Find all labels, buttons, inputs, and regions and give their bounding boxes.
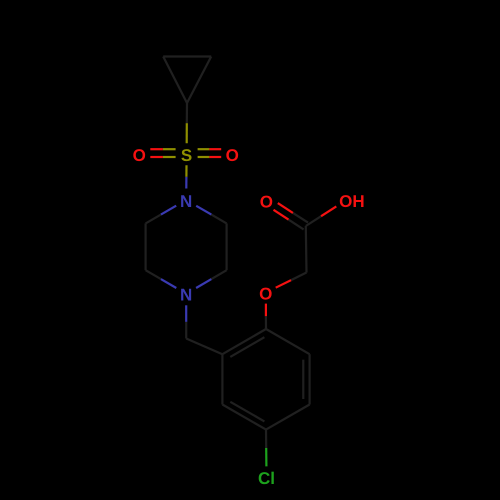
wire: benzene bond C4-C5 [266,405,310,430]
svg-text:N: N [180,286,192,305]
wire: piperazine N1-C bond [161,206,176,215]
wire: C-Cl bond [265,430,267,448]
wire: N-CH2 benzyl bond [185,305,187,322]
wire: O-phenyl bond [265,304,267,317]
svg-text:O: O [260,192,273,211]
svg-text:O: O [133,146,146,165]
svg-text:Cl: Cl [258,469,275,488]
wire: O-CH2 bond [276,280,291,288]
wire: benzene double bond inner line C1-C2 [230,337,264,357]
svg-text:S: S [181,146,192,165]
wire: piperazine N2-C bond [161,279,176,288]
wire: C=O carboxyl double bond [293,213,308,223]
wire: benzene bond C1-C2 [222,329,266,354]
wire: S-N bond [185,165,187,177]
wire: CH2-phenyl bond [186,339,222,355]
wire: piperazine C-C bond [145,223,147,270]
wire: benzene double bond inner line C3-C4 [230,402,264,422]
wire: piperazine N1-C bond [196,206,211,215]
wire: benzene bond C6-C1 [266,329,310,354]
wire: S=O left double bond [163,148,176,150]
wire: piperazine N2-C bond [196,279,211,288]
wire: C-CH2 bond [305,226,308,273]
wire: cyclopropane bond C1-C2 [163,57,187,104]
wire: benzene double bond inner line C5-C6 [302,360,304,399]
wire: S=O right double bond [198,156,210,158]
svg-text:N: N [180,192,192,211]
wire: C-OH bond [306,216,321,226]
svg-text:O: O [226,146,239,165]
svg-text:O: O [259,284,272,303]
wire: piperazine C-C bond [226,223,228,270]
wire: cyclopropane bond C1-C3 [187,57,211,104]
wire: S-cyclopropyl bond [186,123,188,143]
wire: benzene bond C2-C3 [221,354,223,404]
wire: benzene bond C3-C4 [222,405,266,430]
wire: benzene bond C5-C6 [309,354,311,404]
svg-text:OH: OH [339,192,365,211]
wire: cyclopropane bond C2-C3 [163,55,211,57]
